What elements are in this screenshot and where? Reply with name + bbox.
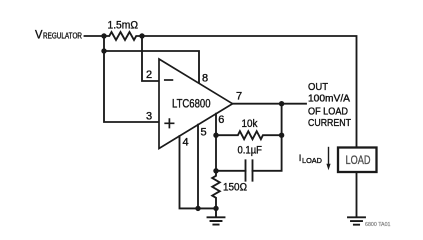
svg-text:1.5mΩ: 1.5mΩ (108, 20, 139, 32)
svg-text:LOAD: LOAD (302, 156, 323, 165)
ground GND2 (348, 217, 365, 224)
wire node C down to pin 3 (104, 51, 159, 122)
node H junction dot pin5/rail (195, 206, 200, 211)
svg-text:8: 8 (202, 73, 208, 85)
svg-text:OUT: OUT (308, 82, 328, 93)
svg-text:I: I (299, 153, 302, 164)
svg-text:2: 2 (146, 69, 152, 81)
svg-text:V: V (35, 30, 43, 42)
svg-text:4: 4 (183, 137, 189, 149)
wire from VREGULATOR to node A (85, 35, 105, 37)
node A junction dot (101, 33, 106, 38)
wire node D down to capacitor (253, 104, 282, 171)
op-amp minus sign (165, 79, 173, 81)
resistor R1 10k (216, 131, 282, 139)
svg-text:150Ω: 150Ω (223, 182, 247, 194)
node C junction dot (101, 48, 106, 53)
wire pin 5 down (197, 125, 199, 209)
wire pin 7 output (233, 103, 307, 105)
op-amp U1 LTC6800 (159, 59, 233, 149)
node B junction dot (139, 33, 144, 38)
ground GND1 (208, 208, 225, 224)
node VREGULATOR label (35, 30, 82, 42)
svg-text:3: 3 (146, 111, 152, 123)
node D junction dot on output (279, 101, 284, 106)
node F junction dot (279, 133, 284, 138)
load box (338, 148, 377, 173)
wire top rail to right (142, 36, 357, 147)
svg-text:REGULATOR: REGULATOR (43, 32, 82, 41)
svg-text:6: 6 (218, 114, 224, 126)
node I junction dot rail/ground (213, 206, 218, 211)
svg-text:6800 TA01: 6800 TA01 (365, 222, 391, 228)
svg-text:7: 7 (236, 91, 242, 103)
op-amp plus sign (165, 119, 173, 127)
wire capacitor left plate to node G (216, 170, 246, 172)
wire load box to ground (356, 172, 358, 217)
svg-text:CURRENT: CURRENT (308, 118, 351, 129)
wire node B down to pin 2 (142, 36, 159, 81)
wire pin 4 down and bottom rail (180, 136, 217, 208)
resistor RSENSE 1.5mOhm (104, 32, 142, 40)
svg-text:100mV/A: 100mV/A (308, 94, 350, 105)
svg-text:5: 5 (201, 127, 207, 139)
node E junction dot (213, 133, 218, 138)
wire pin 6 down (215, 114, 217, 171)
svg-text:10k: 10k (242, 118, 258, 130)
svg-text:OF LOAD: OF LOAD (308, 106, 348, 117)
label OUT text block (308, 82, 351, 129)
svg-text:0.1µF: 0.1µF (238, 145, 263, 157)
node G junction dot (213, 168, 218, 173)
wire node C to pin 8 (104, 51, 199, 84)
svg-text:LOAD: LOAD (346, 155, 371, 167)
wire node A down (103, 36, 105, 51)
capacitor C1 0.1uF plates (246, 160, 253, 180)
resistor R2 150 Ohm (212, 171, 220, 208)
arrow ILOAD direction (326, 148, 330, 171)
label ILOAD (299, 153, 323, 165)
svg-text:LTC6800: LTC6800 (172, 97, 211, 111)
